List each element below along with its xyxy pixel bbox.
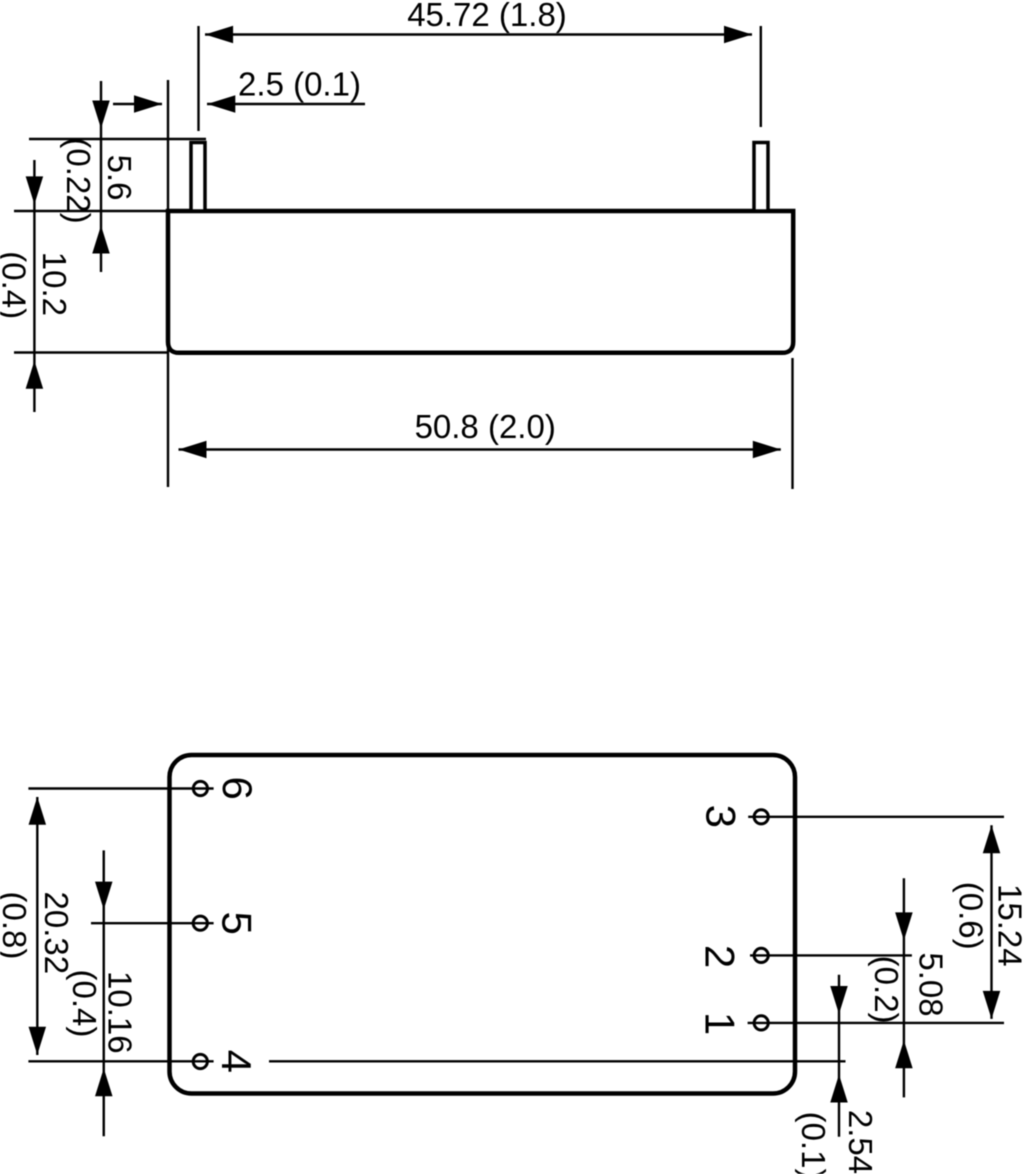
- svg-text:5.08: 5.08: [913, 952, 950, 1016]
- svg-text:(0.22): (0.22): [60, 137, 97, 223]
- svg-text:(0.4): (0.4): [0, 251, 33, 319]
- svg-text:2: 2: [696, 945, 743, 968]
- svg-text:10.16: 10.16: [102, 971, 139, 1054]
- svg-text:5: 5: [213, 912, 260, 935]
- svg-text:(0.2): (0.2): [868, 956, 905, 1024]
- svg-text:6: 6: [214, 777, 261, 800]
- svg-text:2.54: 2.54: [842, 1110, 879, 1174]
- svg-text:2.5 (0.1): 2.5 (0.1): [238, 66, 361, 103]
- svg-text:15.24: 15.24: [992, 884, 1024, 967]
- svg-text:10.2: 10.2: [36, 252, 73, 316]
- svg-text:45.72 (1.8): 45.72 (1.8): [407, 0, 567, 33]
- svg-text:5.6: 5.6: [101, 155, 138, 201]
- svg-text:1: 1: [696, 1012, 743, 1035]
- svg-text:(0.6): (0.6): [953, 882, 990, 950]
- svg-text:(0.4): (0.4): [66, 969, 103, 1037]
- svg-text:20.32: 20.32: [38, 892, 75, 975]
- svg-text:3: 3: [697, 805, 744, 828]
- svg-text:4: 4: [213, 1050, 260, 1073]
- svg-text:(0.8): (0.8): [0, 891, 33, 959]
- svg-text:50.8 (2.0): 50.8 (2.0): [415, 408, 556, 445]
- svg-text:(0.1): (0.1): [795, 1112, 832, 1174]
